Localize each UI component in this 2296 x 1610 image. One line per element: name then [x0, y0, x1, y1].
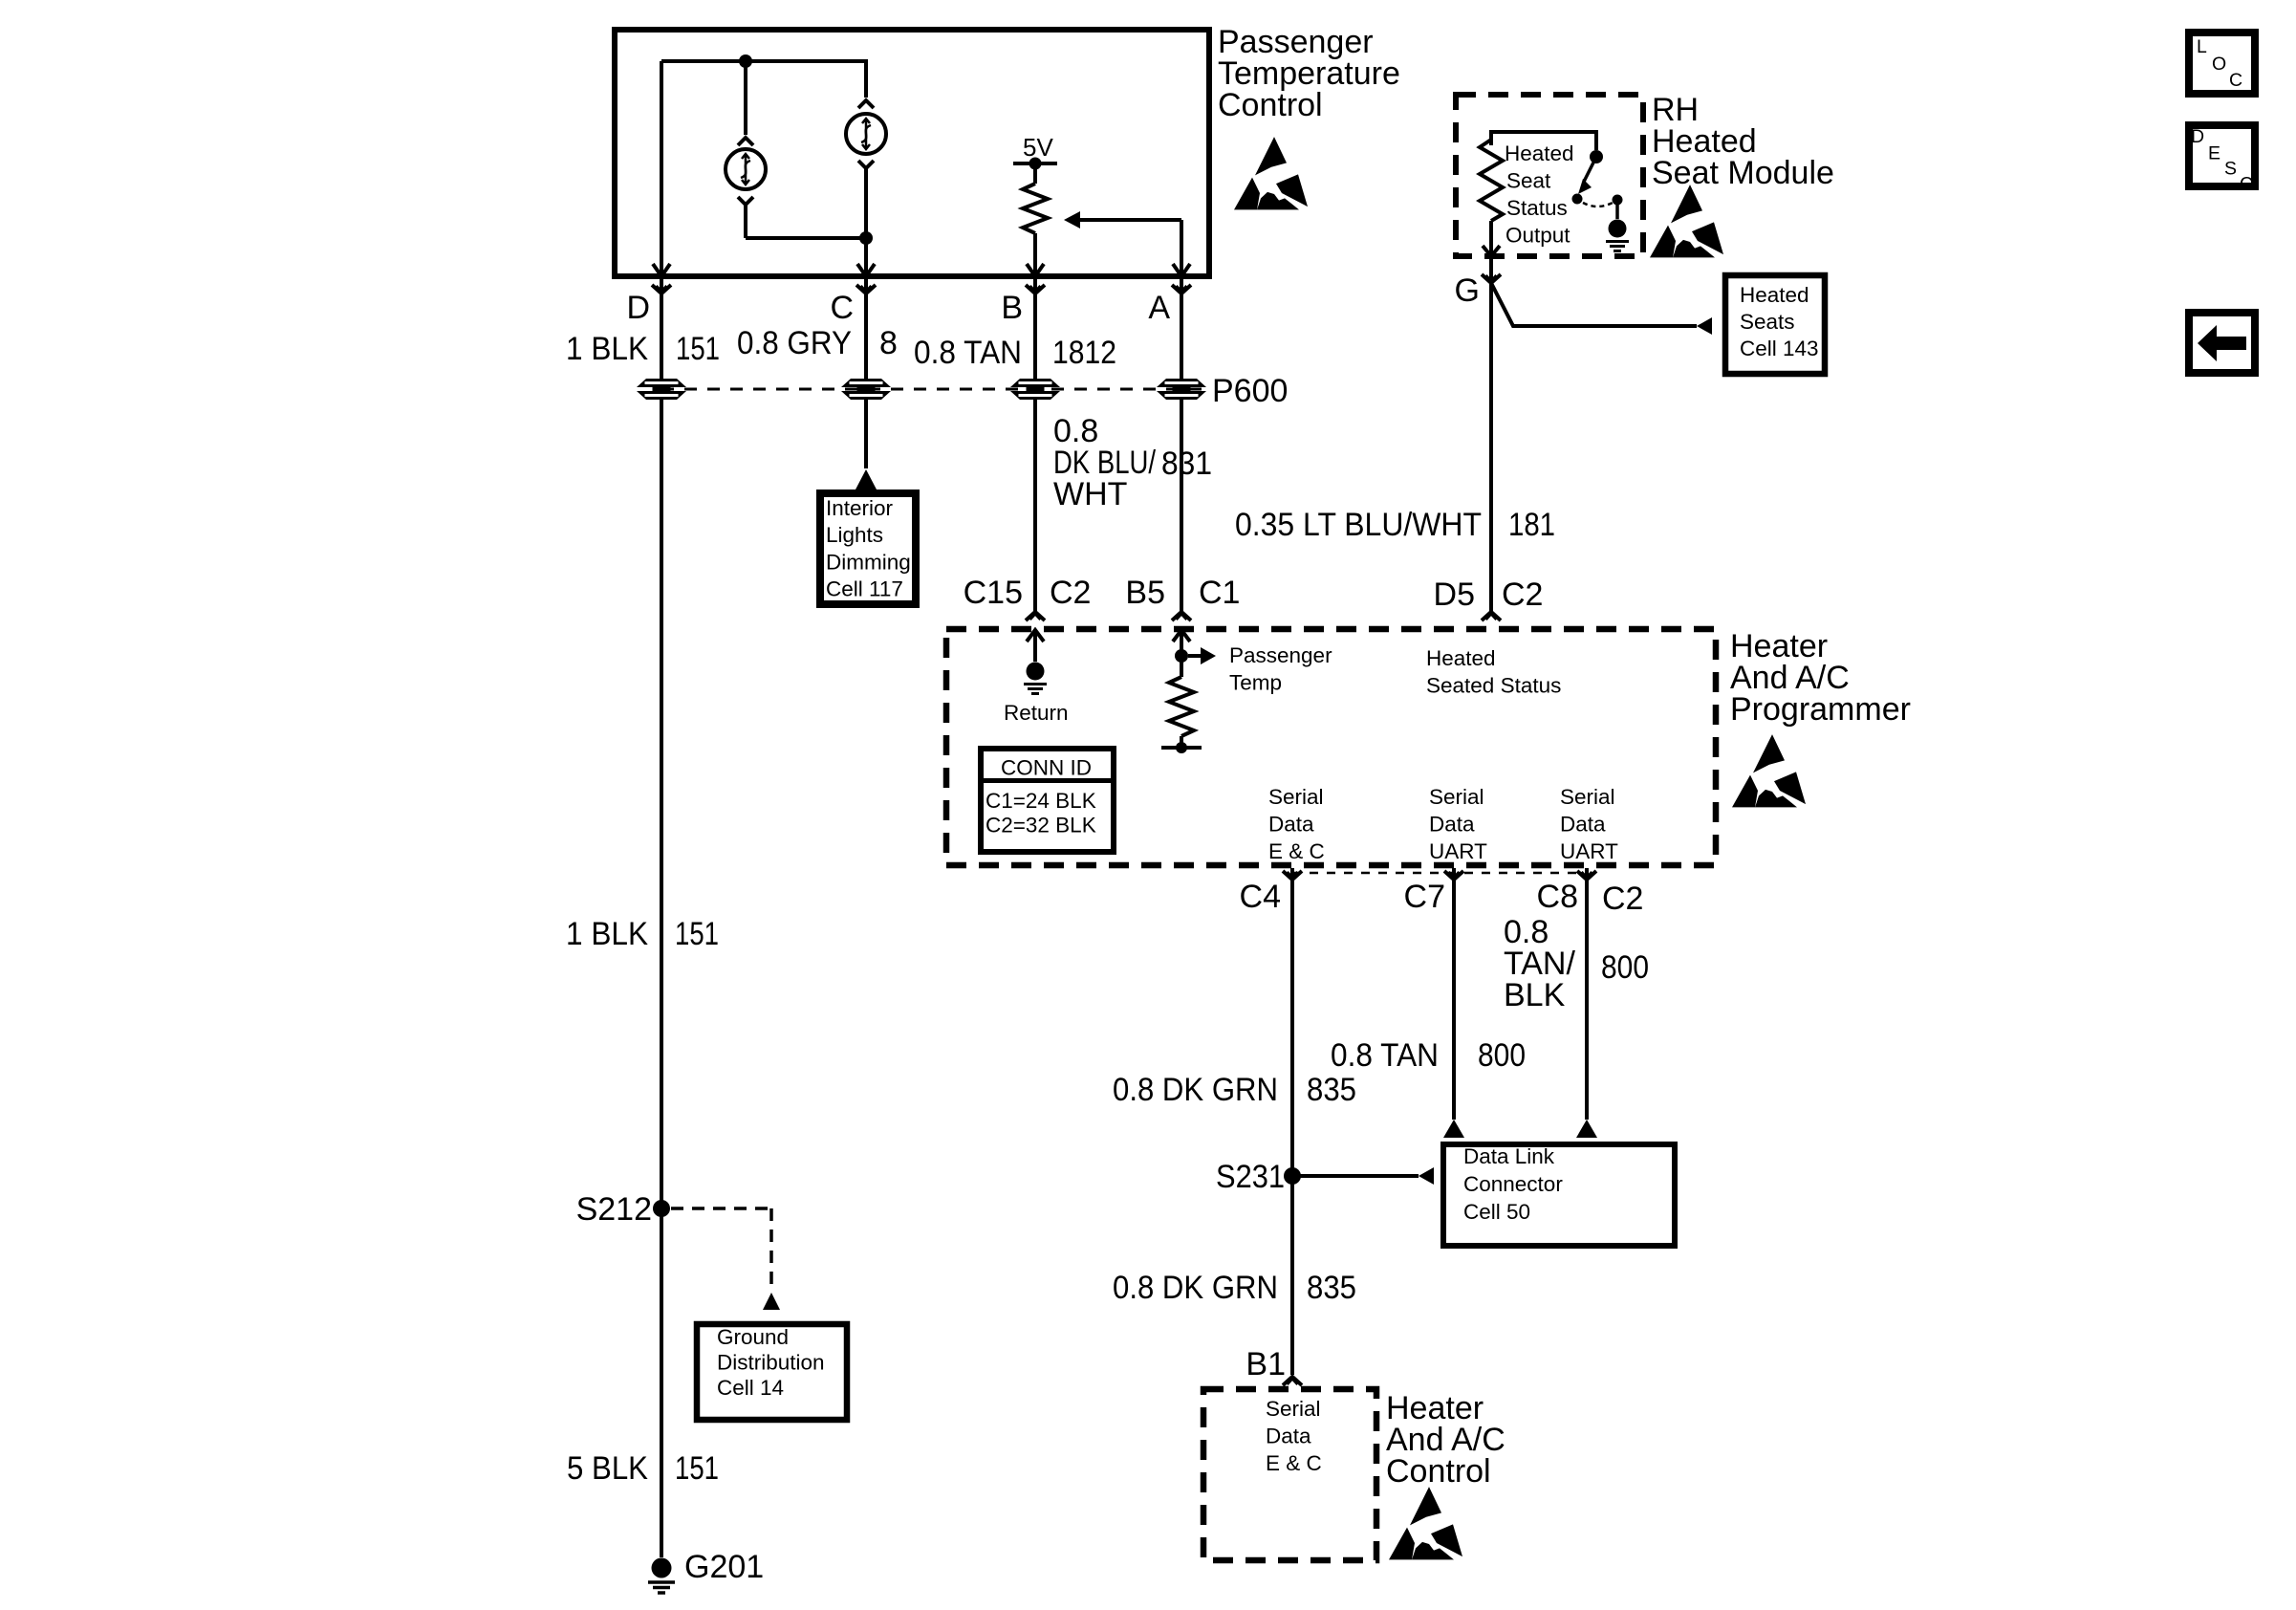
svg-text:C1: C1 [1199, 575, 1240, 611]
svg-text:0.8 TAN: 0.8 TAN [914, 335, 1022, 371]
svg-text:B1: B1 [1245, 1346, 1286, 1382]
svg-text:Dimming: Dimming [826, 551, 911, 575]
svg-text:Output: Output [1505, 224, 1570, 248]
svg-text:Return: Return [1004, 701, 1069, 725]
svg-text:Control: Control [1218, 87, 1323, 123]
svg-text:L: L [2197, 36, 2207, 57]
svg-text:Temp: Temp [1229, 671, 1282, 695]
svg-text:O: O [2212, 54, 2226, 75]
svg-text:Data: Data [1560, 813, 1606, 837]
svg-text:C8: C8 [1537, 879, 1578, 915]
svg-text:1 BLK: 1 BLK [566, 331, 648, 367]
svg-text:Ground: Ground [717, 1325, 789, 1349]
svg-text:Serial: Serial [1429, 785, 1484, 809]
svg-text:Serial: Serial [1268, 785, 1324, 809]
svg-text:Control: Control [1386, 1453, 1491, 1490]
svg-text:Cell 50: Cell 50 [1463, 1200, 1530, 1224]
svg-text:831: 831 [1161, 446, 1212, 482]
svg-text:Seat: Seat [1506, 169, 1551, 193]
svg-text:C2: C2 [1602, 881, 1643, 917]
svg-text:D: D [626, 290, 650, 326]
svg-text:800: 800 [1478, 1037, 1526, 1074]
svg-text:0.8 DK GRN: 0.8 DK GRN [1113, 1072, 1278, 1108]
svg-text:C2: C2 [1502, 577, 1543, 613]
svg-text:835: 835 [1307, 1270, 1356, 1306]
svg-text:Serial: Serial [1266, 1397, 1321, 1421]
svg-text:A: A [1148, 290, 1170, 326]
svg-text:D: D [2191, 126, 2204, 147]
svg-text:Cell 117: Cell 117 [826, 577, 903, 601]
svg-text:Connector: Connector [1463, 1172, 1563, 1196]
svg-text:5 BLK: 5 BLK [567, 1450, 648, 1487]
svg-text:C7: C7 [1404, 879, 1445, 915]
svg-text:Seat Module: Seat Module [1652, 155, 1834, 191]
svg-text:BLK: BLK [1504, 977, 1566, 1013]
svg-text:835: 835 [1307, 1072, 1356, 1108]
svg-text:1 BLK: 1 BLK [566, 916, 648, 952]
svg-text:E: E [2208, 143, 2220, 164]
svg-text:Programmer: Programmer [1730, 691, 1911, 728]
svg-text:0.8 DK GRN: 0.8 DK GRN [1113, 1270, 1278, 1306]
svg-text:8: 8 [879, 325, 898, 361]
svg-text:C1=24 BLK: C1=24 BLK [986, 789, 1096, 813]
svg-text:Serial: Serial [1560, 785, 1615, 809]
svg-text:Lights: Lights [826, 523, 883, 547]
svg-text:S: S [2224, 159, 2237, 180]
svg-text:Cell 143: Cell 143 [1740, 337, 1819, 360]
svg-text:C4: C4 [1240, 879, 1281, 915]
svg-text:Interior: Interior [826, 496, 894, 520]
svg-text:1812: 1812 [1052, 335, 1116, 371]
svg-text:S212: S212 [576, 1191, 652, 1228]
svg-text:151: 151 [675, 916, 719, 952]
svg-text:Seated Status: Seated Status [1426, 674, 1561, 698]
svg-text:Data: Data [1268, 813, 1314, 837]
svg-text:Data Link: Data Link [1463, 1144, 1555, 1168]
svg-text:CONN ID: CONN ID [1001, 756, 1092, 780]
svg-text:C: C [830, 290, 854, 326]
svg-text:C15: C15 [964, 575, 1023, 611]
svg-text:Cell 14: Cell 14 [717, 1376, 784, 1400]
svg-text:Data: Data [1429, 813, 1475, 837]
svg-text:UART: UART [1560, 839, 1618, 863]
svg-text:Status: Status [1506, 196, 1568, 220]
svg-text:181: 181 [1508, 507, 1555, 543]
svg-text:5V: 5V [1023, 133, 1053, 162]
svg-text:C: C [2229, 70, 2242, 91]
svg-text:151: 151 [676, 331, 720, 367]
svg-text:B: B [1001, 290, 1023, 326]
svg-text:151: 151 [675, 1450, 719, 1487]
svg-text:Heated: Heated [1740, 283, 1809, 307]
svg-text:S231: S231 [1216, 1159, 1285, 1195]
svg-text:Distribution: Distribution [717, 1351, 825, 1375]
svg-text:E & C: E & C [1268, 839, 1325, 863]
svg-text:D5: D5 [1434, 577, 1475, 613]
svg-text:WHT: WHT [1053, 476, 1127, 512]
svg-text:Heated: Heated [1426, 646, 1496, 670]
svg-text:B5: B5 [1125, 575, 1165, 611]
svg-text:Seats: Seats [1740, 310, 1795, 334]
svg-text:0.35 LT BLU/WHT: 0.35 LT BLU/WHT [1235, 507, 1482, 543]
svg-text:P600: P600 [1212, 373, 1288, 409]
svg-text:C2=32 BLK: C2=32 BLK [986, 814, 1096, 838]
svg-text:Passenger: Passenger [1229, 643, 1332, 667]
svg-text:Heated: Heated [1505, 141, 1574, 165]
svg-text:C2: C2 [1050, 575, 1091, 611]
svg-text:800: 800 [1601, 949, 1649, 986]
svg-text:Data: Data [1266, 1425, 1311, 1448]
svg-text:0.8 TAN: 0.8 TAN [1331, 1037, 1439, 1074]
svg-text:UART: UART [1429, 839, 1487, 863]
svg-text:C: C [2240, 174, 2253, 195]
svg-text:G: G [1455, 272, 1480, 309]
svg-text:0.8 GRY: 0.8 GRY [737, 325, 852, 361]
svg-text:E & C: E & C [1266, 1451, 1322, 1475]
svg-text:G201: G201 [684, 1549, 764, 1585]
